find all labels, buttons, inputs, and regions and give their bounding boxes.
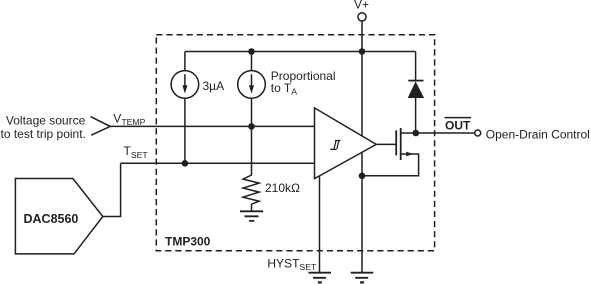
- svg-text:OUT: OUT: [445, 119, 471, 133]
- svg-text:Open-Drain Control: Open-Drain Control: [486, 128, 590, 142]
- diode D1 body: [408, 81, 424, 98]
- node: proportional source / V_TEMP: [248, 123, 255, 130]
- svg-text:210kΩ: 210kΩ: [265, 181, 300, 195]
- transistor Q1 drain wire: [401, 132, 416, 134]
- diode D1 cathode bar: [408, 80, 423, 82]
- ground: HYST pin: [309, 273, 332, 278]
- svg-text:to test trip point.: to test trip point.: [1, 127, 86, 141]
- wire: top rail: [185, 51, 416, 53]
- V+ terminal: [358, 13, 366, 21]
- DAC8560 block: [15, 179, 102, 254]
- transistor Q1 gate bar: [395, 130, 397, 155]
- node: 3uA / T_SET: [182, 160, 189, 167]
- wire: top rail to proportional source: [251, 52, 253, 71]
- svg-text:DAC8560: DAC8560: [24, 212, 79, 226]
- wire: comparator bottom edge to ground: [361, 152, 363, 272]
- wire: OUT: [416, 132, 475, 134]
- svg-text:3µA: 3µA: [203, 79, 225, 93]
- ground: resistor: [240, 211, 263, 221]
- current source I2 proportional to TA: [238, 71, 266, 99]
- wire: proportional source to V_TEMP line and resistor: [251, 98, 253, 168]
- wire: V_TEMP: [110, 125, 314, 127]
- wire: top rail to 3uA source: [184, 52, 186, 71]
- current source I1 3uA: [171, 71, 199, 99]
- resistor R1 210k: [243, 169, 259, 212]
- svg-text:VTEMP: VTEMP: [113, 112, 145, 128]
- node: top rail / proportional source: [248, 48, 255, 55]
- comparator U1: [315, 108, 377, 179]
- transistor Q1 source wire with arrow: [362, 154, 419, 176]
- wire: comparator output to gate: [376, 143, 396, 145]
- TMP300 boundary dashed box: [156, 35, 434, 251]
- node: drain / diode / OUT: [413, 130, 420, 137]
- wire: diode branch (top rail to cathode): [415, 52, 417, 81]
- svg-text:TMP300: TMP300: [165, 234, 211, 248]
- ground: main: [351, 273, 374, 278]
- node: top rail / V+: [359, 48, 366, 55]
- svg-text:V+: V+: [354, 0, 369, 12]
- wire: T_SET: [121, 162, 315, 164]
- wire: diode anode to drain node: [415, 98, 417, 133]
- wire: V+ terminal to comparator top edge: [361, 21, 363, 136]
- wire: DAC8560 to T_SET: [103, 163, 121, 216]
- hysteresis symbol: [330, 141, 340, 150]
- wire: comparator HYST pin to ground: [319, 176, 321, 273]
- OUT terminal: [475, 130, 481, 136]
- svg-text:to TA: to TA: [271, 81, 297, 96]
- transistor Q1 channel bar: [400, 128, 402, 160]
- svg-text:TSET: TSET: [124, 144, 149, 160]
- node: source feedback / ground rail: [359, 173, 366, 180]
- wire: 3uA source to T_SET line: [184, 98, 186, 163]
- svg-text:Voltage source: Voltage source: [6, 113, 86, 127]
- arrowhead at V_TEMP input: [91, 117, 111, 136]
- svg-text:HYSTSET: HYSTSET: [267, 256, 317, 272]
